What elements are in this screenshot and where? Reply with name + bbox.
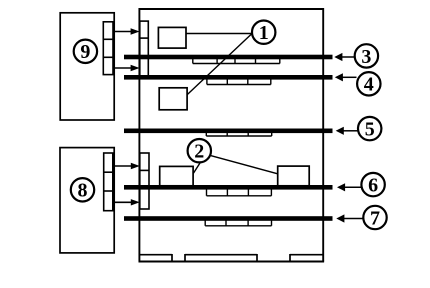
svg-text:6: 6 [368, 175, 378, 197]
svg-text:7: 7 [370, 207, 380, 229]
svg-text:1: 1 [259, 22, 269, 44]
svg-text:5: 5 [365, 119, 375, 141]
svg-text:9: 9 [80, 41, 90, 63]
svg-text:2: 2 [194, 141, 204, 163]
svg-text:3: 3 [361, 46, 371, 68]
svg-text:4: 4 [364, 74, 374, 96]
svg-text:8: 8 [78, 180, 88, 202]
